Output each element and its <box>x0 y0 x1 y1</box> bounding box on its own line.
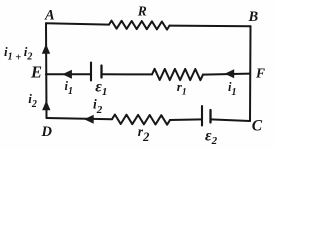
svg-text:i1: i1 <box>65 79 73 97</box>
svg-text:B: B <box>248 9 259 25</box>
svg-text:r1: r1 <box>177 79 187 98</box>
battery ε2 long plate <box>201 106 203 126</box>
wire E to battery ε1 <box>46 73 91 75</box>
battery ε2 short plate <box>209 110 211 123</box>
wire r1 to F <box>203 74 250 75</box>
resistor r1 <box>152 69 203 80</box>
svg-text:i2: i2 <box>93 97 103 116</box>
resistor R <box>109 21 170 30</box>
current arrow i1+i2 up (A-E segment) <box>42 44 50 54</box>
svg-text:i1+i2: i1+i2 <box>4 44 32 64</box>
current arrow i1 left (F side) <box>225 69 235 78</box>
svg-text:i1: i1 <box>228 80 236 98</box>
svg-text:i2: i2 <box>28 91 37 110</box>
svg-text:ε1: ε1 <box>95 79 107 98</box>
battery ε1 long plate <box>90 63 92 81</box>
svg-text:R: R <box>137 4 147 19</box>
svg-text:E: E <box>30 62 42 81</box>
svg-text:F: F <box>255 66 265 81</box>
wire r2 to battery ε2 <box>170 118 202 121</box>
svg-text:ε2: ε2 <box>205 128 218 147</box>
wire left side A-E-D <box>45 23 48 118</box>
wire battery ε2 to C <box>211 119 251 121</box>
current arrow i2 up (E-D segment) <box>42 101 50 111</box>
current arrow i2 left (bottom wire) <box>84 115 94 124</box>
svg-text:C: C <box>252 118 263 135</box>
battery ε1 short plate <box>100 66 102 78</box>
wire top-left A to R <box>46 23 109 24</box>
wire battery ε1 to r1 <box>102 73 153 75</box>
wire right side B-F-C <box>249 26 252 121</box>
current arrow i1 left (E side) <box>62 70 72 79</box>
resistor r2 <box>112 115 170 125</box>
svg-text:r2: r2 <box>138 124 150 144</box>
wire top-right R to B <box>170 25 251 28</box>
svg-text:A: A <box>44 8 55 24</box>
wire D to r2 <box>47 118 113 119</box>
svg-text:D: D <box>41 124 53 140</box>
